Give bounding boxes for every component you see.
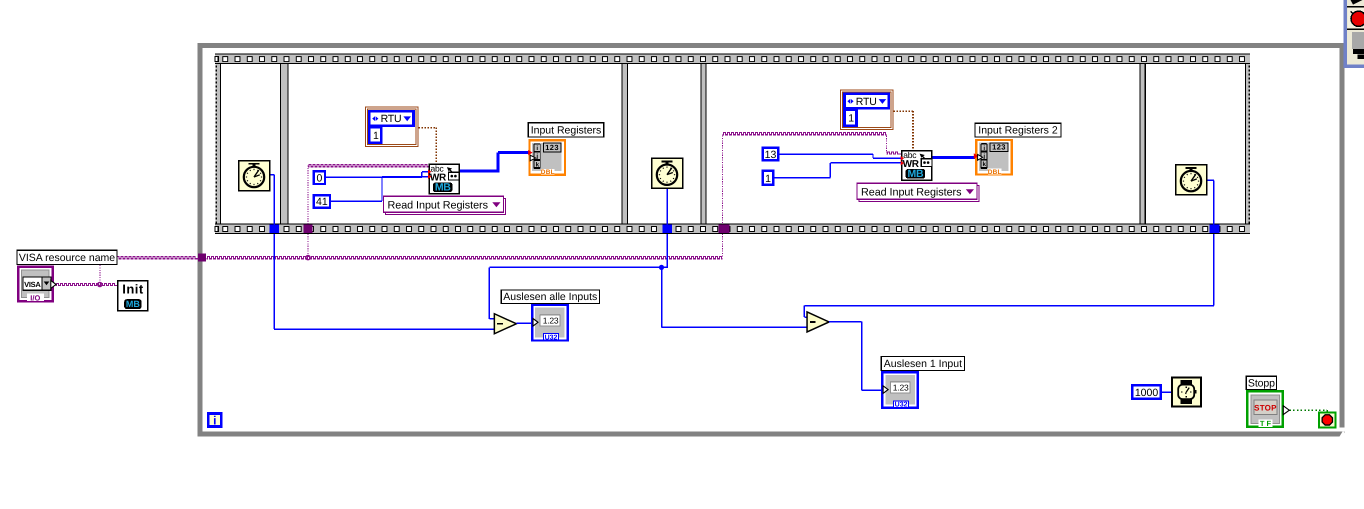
while loop border <box>198 43 1347 437</box>
tunnel: VISA input tunnel on while loop left border <box>198 253 206 261</box>
Subtract function 2 <box>807 312 829 332</box>
wire: Subtract1 output to Auslesen alle Inputs <box>517 322 533 324</box>
WR MB subVI 2 <box>901 150 932 180</box>
flat sequence structure: right zigzag edge <box>1246 54 1251 235</box>
wire: VISA up from tunnel and across to WR MB 1 <box>308 165 429 225</box>
wire: frame1 tick count down to Subtract1 lower input <box>274 234 494 330</box>
svg-text:Stopp: Stopp <box>1248 378 1275 390</box>
numeric constant 1 <box>763 171 774 185</box>
indicator: Input Registers <box>529 140 565 176</box>
mouse cursor arrow at Input Registers <box>530 155 535 161</box>
sequence frame 1 <box>221 63 281 224</box>
numeric constant 0 <box>314 171 325 184</box>
wire: VISA branch up from main run to frame4 tunnel <box>721 234 723 258</box>
Tick Count (ms) timer, frame 1 <box>239 161 270 191</box>
label: Input Registers <box>528 123 604 137</box>
svg-text:Auslesen 1 Input: Auslesen 1 Input <box>884 358 962 370</box>
wire: constant 0 to WR MB 1 <box>325 172 428 178</box>
tunnel: frame1 tick count (blue) <box>269 225 279 234</box>
tunnel: frame3 tick count (blue) <box>663 225 673 234</box>
indicator: Auslesen 1 Input (U32) <box>882 372 918 408</box>
loop condition terminal (stop sign) <box>1319 412 1335 427</box>
flat sequence structure: film strip bottom band <box>215 224 1250 235</box>
wire: clock5 to frame5 tunnel <box>1208 180 1214 224</box>
floating tools palette fragment <box>1344 0 1364 68</box>
svg-text:i: i <box>213 413 216 427</box>
wire: frame3 tick count down, left to Subtract1 upper input <box>489 234 668 319</box>
indicator: Input Registers 2 <box>976 140 1012 176</box>
sequence frame 2 <box>288 63 622 224</box>
flat sequence structure: left zigzag edge <box>216 54 221 235</box>
wire: clock3 to frame3 tunnel <box>666 189 668 225</box>
node: VISA wire junction near Init MB <box>98 282 102 286</box>
svg-text:Auslesen alle Inputs: Auslesen alle Inputs <box>503 291 597 303</box>
label: Auslesen alle Inputs <box>501 290 599 303</box>
svg-text:VISA: VISA <box>24 280 41 289</box>
svg-text:Input Registers: Input Registers <box>531 124 602 136</box>
sequence frame 5 <box>1145 63 1245 224</box>
tunnel: frame4 VISA (purple) <box>718 225 729 234</box>
wire: Stopp to loop condition terminal (green dotted) <box>1290 410 1328 412</box>
label: Auslesen 1 Input <box>881 356 964 370</box>
wire: VISA purple main horizontal run below sequence <box>207 257 723 259</box>
svg-text:MB: MB <box>126 299 140 309</box>
Tick Count (ms) timer, frame 5 <box>1176 165 1207 195</box>
wire: RTU cluster 1 to WR MB 1 (brown) <box>418 128 436 164</box>
ring constant: Read Input Registers 1 <box>384 196 506 214</box>
node: wire junction on frame3 tick wire <box>659 265 664 270</box>
flat sequence structure: film strip top band <box>215 54 1250 65</box>
RTU cluster constant 2 <box>841 90 894 130</box>
svg-text:VISA resource name: VISA resource name <box>19 252 115 264</box>
ring constant: Read Input Registers 2 <box>857 183 979 201</box>
svg-text:1000: 1000 <box>1135 387 1159 399</box>
numeric constant 13 <box>763 148 779 161</box>
WR MB subVI 1 <box>428 164 459 194</box>
tunnel: frame2 VISA (purple) <box>304 225 313 234</box>
label: VISA resource name <box>17 250 117 264</box>
sequence frame 3 <box>627 63 701 224</box>
boolean control terminal: Stopp <box>1247 391 1289 428</box>
svg-text:Read Input Registers: Read Input Registers <box>388 200 489 212</box>
wire: VISA control to Init MB and up to loop tunnel <box>56 257 199 286</box>
indicator: Auslesen alle Inputs (U32) <box>532 305 568 341</box>
svg-text:41: 41 <box>316 196 328 208</box>
Wait Until Next ms Multiple timer <box>1172 377 1201 406</box>
svg-text:13: 13 <box>765 149 777 161</box>
numeric constant 41 <box>314 195 330 208</box>
wire: WR MB 2 output to Input Registers 2 (thick) <box>933 156 976 159</box>
Tick Count (ms) timer, frame 3 <box>652 158 683 188</box>
wire: frame5 tick count down, left to Subtract2 upper input <box>804 234 1214 317</box>
wire: clock1 to frame1 tunnel <box>271 175 275 225</box>
svg-text:1: 1 <box>765 173 771 185</box>
red input arrow on Input Registers 2 <box>974 153 979 159</box>
wire: RTU cluster 2 to WR MB 2 (brown) <box>893 111 913 150</box>
svg-text:Init: Init <box>122 281 144 296</box>
RTU cluster constant 1 <box>365 107 418 147</box>
iteration terminal i <box>208 413 221 427</box>
wire: junction down, right to Subtract2 lower input <box>662 267 807 327</box>
subVI: Init MB <box>118 281 148 311</box>
svg-text:STOP: STOP <box>1254 404 1277 413</box>
wire: VISA up from frame4 tunnel, across and down to WR MB 2 <box>722 133 901 225</box>
sequence frame 4 <box>706 63 1140 224</box>
wire: constant 1 to WR MB 2 <box>775 163 902 178</box>
svg-text:Read Input Registers: Read Input Registers <box>861 187 962 199</box>
mouse cursor arrow at Input Registers 2 <box>978 154 983 160</box>
numeric constant 1000 <box>1132 385 1160 399</box>
wire: Subtract2 output down to Auslesen 1 Input <box>829 322 883 390</box>
wire: constant 41 to WR MB 1 <box>331 177 428 202</box>
svg-text:Input Registers 2: Input Registers 2 <box>978 125 1058 137</box>
wire: constant 13 to WR MB 2 <box>780 154 902 158</box>
tunnel: frame5 tick count (blue) <box>1209 225 1219 234</box>
wire: constant 1000 to wait timer <box>1162 391 1172 393</box>
label: Input Registers 2 <box>975 123 1061 137</box>
red input arrow on Input Registers <box>528 150 532 155</box>
wire: VISA branch down from frame2 tunnel to main run <box>307 234 309 258</box>
svg-text:0: 0 <box>316 172 322 184</box>
wire: WR MB 1 output to Input Registers (thick) <box>460 153 530 173</box>
svg-text:T F: T F <box>1260 419 1272 428</box>
Subtract function 1 <box>494 314 516 334</box>
node: VISA wire junction at frame2 branch <box>306 256 310 260</box>
svg-text:I/O: I/O <box>30 293 40 302</box>
frame gap fills <box>281 64 1145 223</box>
VISA resource name control terminal <box>18 267 56 303</box>
label: Stopp <box>1246 376 1276 389</box>
